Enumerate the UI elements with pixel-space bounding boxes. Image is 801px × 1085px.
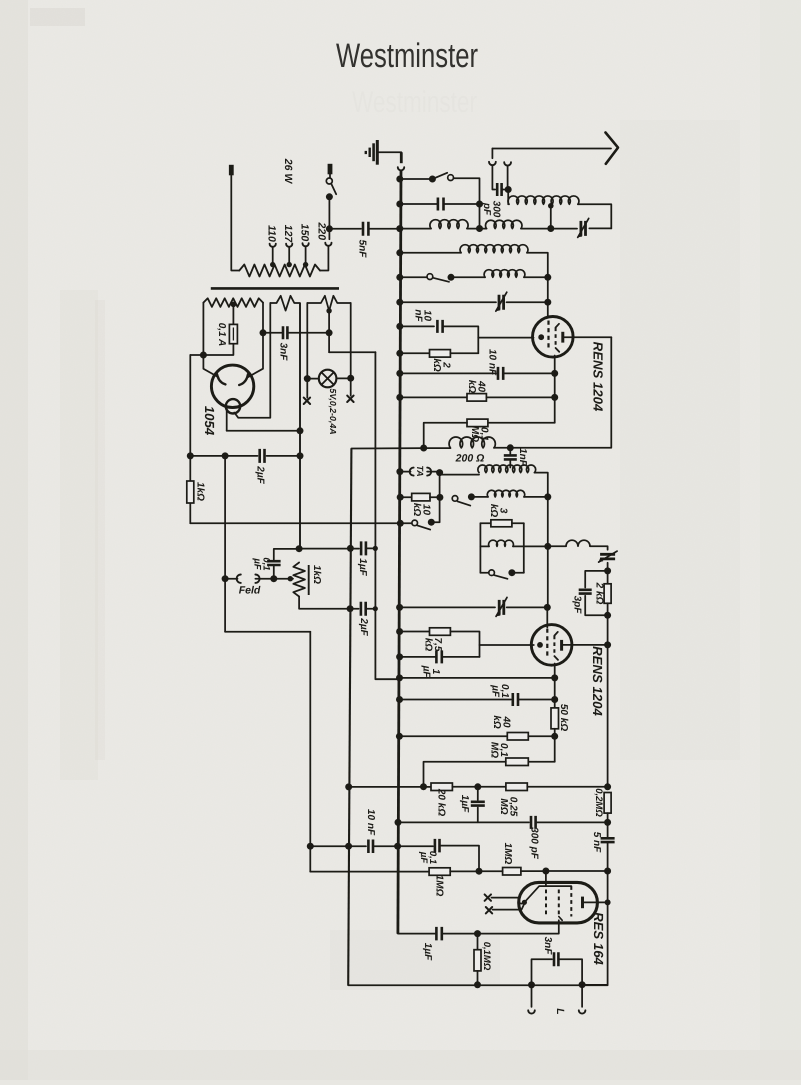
trimmer capacitor CT3 (600, 554, 615, 559)
wire C3 to grid corner (443, 326, 478, 353)
junction row4 bus (396, 249, 403, 256)
rheostat R17 1 kOhm (zigzag) (293, 563, 305, 597)
wire 1M row left (310, 871, 429, 873)
wire coil row right (548, 545, 566, 547)
wire S6 to 220 node (328, 197, 330, 229)
junction row2 dot on bus (396, 176, 403, 183)
junction B+ rail/20k (345, 783, 352, 790)
wire 10nF row (399, 325, 434, 327)
wire C11 to detector column (536, 821, 608, 823)
junction B+ rail/1uF row (347, 545, 354, 552)
resistor R8 40 kOhm (507, 733, 528, 741)
junction sc2/coil row (544, 543, 551, 550)
wire row3 left (399, 228, 431, 230)
capacitor 300 pF (497, 183, 501, 196)
junction V3 anode (605, 899, 611, 905)
tap 110 socket (270, 244, 276, 247)
svg-text:150: 150 (299, 224, 311, 242)
wire winding B left to nub (234, 303, 270, 418)
junction cathode bus (396, 674, 403, 681)
filament lead 1 with x (492, 897, 520, 899)
resistor R11 0.25 MOhm (506, 783, 527, 791)
svg-text:3pF: 3pF (571, 596, 582, 615)
tube V2 RENS 1204 envelope and electrodes (531, 625, 572, 666)
label 0,1 uF (C8) (490, 684, 511, 698)
trimmer capacitor CT2 (499, 295, 504, 310)
wire C21 to heater rail (366, 608, 376, 610)
wire filament row (227, 430, 300, 432)
wire R6 to grid corner (450, 632, 479, 657)
capacitor C12 10nF (368, 840, 373, 854)
fuse 0.1 A (229, 324, 237, 343)
wire TA to osc node (427, 471, 439, 473)
junction 1uF row end (373, 546, 378, 551)
svg-text:MΩ: MΩ (498, 798, 509, 814)
wire 2k branch (607, 571, 609, 584)
svg-text:5 nF: 5 nF (591, 832, 602, 853)
label 1 kOhm underline (308, 565, 310, 595)
label 0,1uF (C19) (251, 557, 271, 570)
junction S6 pivot (326, 193, 333, 200)
junction tap/row3 (547, 225, 554, 232)
resistor R1 2 kOhm (430, 350, 451, 358)
junction tube2 screen (544, 604, 551, 611)
junction L1 tap (548, 203, 554, 209)
wire L5 to anode column (494, 447, 611, 449)
svg-text:20 kΩ: 20 kΩ (435, 788, 446, 816)
wire CT2 to screen column (507, 301, 548, 303)
junction lamp row left (304, 375, 311, 382)
capacitor C14 1uF (output) (436, 927, 441, 941)
junction speaker left (528, 981, 535, 988)
wire C20 to heater rail (366, 547, 376, 549)
wire row5 left (399, 276, 427, 278)
grid dot inside tube2 (537, 642, 543, 648)
wire S2 to L4 (451, 276, 485, 278)
svg-text:3nF: 3nF (277, 343, 288, 362)
wire C13 to corner (440, 846, 480, 872)
wire R9 to 20k corner (424, 762, 506, 787)
svg-text:1µF: 1µF (357, 558, 368, 576)
junction 2k bus (396, 350, 403, 357)
junction lamp row right (347, 375, 354, 382)
junction 0.1uF bus (396, 696, 403, 703)
wire 10nF3 row left (310, 845, 366, 847)
svg-text:1MΩ: 1MΩ (502, 843, 513, 865)
junction S2 pivot (448, 274, 455, 281)
wire 40k2 row (399, 735, 507, 737)
junction 20k row riser (420, 783, 427, 790)
svg-text:L: L (554, 1008, 566, 1014)
wire C14 to bus corner (398, 933, 436, 935)
label 0,1 uF (C13) (418, 851, 438, 864)
node A1 junction (505, 186, 512, 193)
junction osc/10k row (436, 494, 443, 501)
wire grid lead tube1 (478, 337, 533, 339)
svg-text:kΩ: kΩ (466, 380, 477, 394)
junction Feld column/10nF3 (307, 843, 314, 850)
junction tap/3nF row (326, 329, 333, 336)
junction row5 bus (396, 274, 403, 281)
wire C7 to grid corner (442, 656, 480, 658)
wire output column to bottom (584, 902, 608, 985)
wire switch row (399, 522, 412, 524)
wire V0 drop (189, 355, 191, 523)
label 3 kOhm (L7) (488, 504, 508, 518)
svg-text:1nF: 1nF (517, 448, 528, 467)
svg-text:2 kΩ: 2 kΩ (593, 582, 604, 605)
capacitor C5 1nF (504, 455, 517, 459)
wire B+ rail (348, 449, 351, 986)
svg-text:Feld: Feld (239, 584, 261, 596)
junction S4 pivot (428, 519, 435, 526)
wire 300pF row left (398, 821, 529, 823)
junction osc node (436, 469, 443, 476)
wire C2 to vertical (444, 203, 480, 205)
wire R1 to grid corner (450, 352, 478, 354)
resistor R16 1 kOhm (vertical) (187, 481, 194, 503)
svg-text:µF: µF (421, 665, 432, 679)
svg-text:2µF: 2µF (254, 465, 265, 484)
resistor R14 1 MOhm (503, 868, 521, 876)
junction 40k2 row (551, 733, 558, 740)
inductor L6 (8 turns) (478, 465, 536, 473)
wire field column down (309, 632, 311, 872)
wire 7.5k row (399, 631, 430, 633)
field coil sockets (Feld) (237, 575, 241, 583)
wire C5 to L6 (509, 459, 511, 467)
wire node A1 to antenna coil (507, 190, 509, 205)
capacitor C2 (row2) (438, 198, 444, 211)
wire 0.1M row (488, 422, 555, 424)
svg-text:1MΩ: 1MΩ (433, 875, 444, 897)
switch S4 (412, 520, 418, 526)
wire osc node to L6 (440, 474, 479, 476)
label 2 kOhm (431, 358, 452, 372)
wire detector column upper (607, 615, 609, 787)
svg-text:0,2MΩ: 0,2MΩ (593, 788, 604, 817)
junction 40k2 bus (396, 733, 403, 740)
svg-text:µF: µF (490, 684, 501, 698)
wire row6 left (399, 301, 496, 303)
wire tap to fuse (232, 304, 234, 324)
resistor R6 7.5 kOhm (430, 628, 451, 636)
junction bottom row r15 (474, 981, 481, 988)
junction trimmer row bus (396, 604, 403, 611)
wire L9 to trimmer column (590, 546, 608, 550)
switch S3 (452, 496, 458, 502)
svg-text:110: 110 (266, 225, 278, 242)
primary winding zigzag (239, 265, 320, 277)
junction row3 bus (396, 225, 403, 232)
resistor R3 0.1 MOhm (467, 419, 488, 427)
wire V3 anode (583, 901, 608, 903)
label 40 kOhm (R2) (466, 380, 486, 394)
wire 1uF row (399, 656, 436, 658)
junction 40k bus (396, 394, 403, 401)
capacitor C15 3nF loop (532, 959, 553, 985)
wire 220 tap pin (328, 229, 330, 240)
svg-text:RENS 1204: RENS 1204 (591, 342, 606, 412)
junction cathode/40k (551, 394, 558, 401)
wire R13 to corner (450, 870, 479, 872)
inductor L7 3 kOhm (487, 490, 524, 497)
band filter coil row (480, 545, 489, 547)
wire 1nF riser (509, 448, 511, 454)
antenna socket 2 (504, 162, 511, 165)
resistor R9 0.1 MOhm (506, 758, 529, 766)
antenna with arrow (492, 148, 611, 150)
svg-text:1µF: 1µF (459, 795, 470, 813)
svg-text:TA: TA (415, 465, 425, 476)
junction 2uF row end (373, 606, 378, 611)
capacitor C20 1uF (361, 541, 366, 555)
wire socket 2 down to node A1 (507, 166, 509, 187)
capacitor C10 5nF (601, 838, 615, 842)
svg-text:10 nF: 10 nF (365, 809, 376, 836)
junction S3 pivot (468, 493, 475, 500)
wire R14 to grid node (521, 870, 546, 872)
tube V3 RES 164 envelope and electrodes (519, 882, 598, 923)
trimmer capacitor CT4 (499, 600, 504, 615)
resistor R5 2 kOhm (vertical) (604, 584, 611, 604)
inductor L3 (8 turns) (460, 245, 528, 253)
junction HV right/3nF row (260, 329, 267, 336)
wire R12 down (607, 813, 609, 838)
capacitor C4 10nF (498, 367, 503, 380)
wire cathode row (399, 677, 555, 679)
svg-text:kΩ: kΩ (491, 715, 502, 729)
svg-text:kΩ: kΩ (488, 504, 499, 518)
junction 300pF row det (604, 819, 611, 826)
junction HT top of rheostat (296, 545, 303, 552)
wire main ground bus (vertical) (400, 152, 403, 163)
wire V1 cathode down (554, 356, 556, 423)
junction 3pF bottom (604, 612, 611, 619)
junction det column 20k row (604, 783, 611, 790)
wire chassis row (190, 522, 400, 524)
inductor L4 (5 turns) (484, 270, 525, 278)
wire field row right (255, 578, 273, 580)
wire HV left end to anode (203, 303, 218, 378)
capacitor C9 1uF riser (477, 787, 479, 800)
speaker terminal drop L2 (581, 985, 583, 1007)
junction 10nF2 bus (396, 370, 403, 377)
grid dot inside tube1 (538, 334, 544, 340)
junction 300pF bus (395, 819, 402, 826)
junction AF node (604, 868, 611, 875)
wire C8 to cathode line (518, 699, 555, 701)
capacitor C11 300 pF (531, 816, 536, 829)
wire C18 to HT rail (267, 455, 301, 457)
wire L4 to screen column (524, 276, 548, 278)
svg-text:26 W: 26 W (282, 158, 294, 185)
junction B+ rail/2uF row (347, 605, 354, 612)
svg-text:0,1MΩ: 0,1MΩ (481, 942, 492, 971)
junction L5/1nF (507, 444, 514, 451)
wire 10nF2 row (399, 372, 496, 374)
wire S1 to corner (454, 178, 480, 228)
wire R2 to cathode (486, 396, 554, 398)
svg-text:kΩ: kΩ (431, 358, 442, 372)
svg-text:RENS 1204: RENS 1204 (590, 646, 605, 716)
wire winding C left drop (306, 303, 308, 379)
wire R11 to detector column (527, 786, 607, 788)
svg-text:10 nF: 10 nF (486, 349, 497, 376)
svg-text:5V,0,2-0,4A: 5V,0,2-0,4A (328, 388, 338, 434)
junction AVC/200ohm row (420, 445, 427, 452)
wire CT4 to tube2 top (507, 606, 548, 608)
wire 0.1uF row (399, 699, 511, 701)
HV secondary winding (203, 298, 263, 307)
svg-text:1kΩ: 1kΩ (194, 482, 205, 501)
wire row2 cap feed (399, 203, 438, 205)
trimmer capacitor CT1 (581, 221, 586, 236)
junction B+ rail/10nF3 (345, 843, 352, 850)
wire field loop bottom (225, 631, 310, 633)
wire L1 tap down (550, 206, 552, 229)
svg-text:200 Ω: 200 Ω (455, 452, 485, 464)
wire C12 to bus (373, 845, 398, 847)
wire field row (225, 578, 237, 580)
label 40 kOhm (R8) (491, 715, 512, 729)
band filter right side (523, 523, 525, 572)
wire R7 down (554, 729, 556, 762)
connector socket on bus top (398, 167, 404, 170)
junction row1 (429, 176, 436, 183)
band filter top with resistor (480, 522, 491, 524)
resistor R13 1 MOhm (429, 868, 450, 876)
svg-text:1kΩ: 1kΩ (311, 565, 322, 584)
wire grid lead tube2 (480, 644, 534, 646)
junction V2 anode (604, 641, 611, 648)
wire L8 to screen column 2 (513, 545, 548, 547)
wire C10 down to AF node (607, 842, 609, 871)
wire antenna socket 1 to 300pF (492, 165, 495, 189)
junction 0.1uF row (551, 696, 558, 703)
capacitor C8 0.1uF (513, 693, 518, 706)
label 0,25 MOhm (R11) (498, 797, 518, 817)
junction V0/2uF row (187, 452, 194, 459)
resistor R10 20 kOhm (431, 783, 452, 791)
junction V2uF/V2 column (222, 452, 229, 459)
wire CT3 down (607, 563, 609, 571)
wire 40k row (399, 396, 467, 398)
capacitor C13 0.1uF (435, 839, 440, 853)
wire R3 to AVC corner (424, 423, 467, 448)
wire HV right end to anode (248, 303, 263, 378)
wire 220 socket to primary end (320, 246, 328, 271)
junction HT/filament row (297, 427, 304, 434)
label 10 nF (C3) (412, 309, 432, 322)
svg-text:127: 127 (282, 225, 294, 244)
junction HV left/fuse row (200, 352, 207, 359)
label 10 kOhm (R4) (411, 503, 431, 517)
capacitor C7 1uF (436, 650, 441, 663)
wire bus to C13 (398, 845, 433, 847)
junction HT/2uF row (297, 452, 304, 459)
junction RES164 grid node (542, 868, 549, 875)
inductor L9 (2 turns) (566, 540, 590, 546)
svg-text:0,1 A: 0,1 A (216, 323, 227, 347)
lamp winding (C) (307, 296, 350, 311)
resistor R4 10 kOhm (412, 493, 430, 501)
junction screen column row6 (544, 299, 551, 306)
svg-text:Westminster: Westminster (352, 86, 477, 119)
resistor R2 40 kOhm (467, 394, 486, 402)
wire R4 to osc node (430, 496, 440, 498)
capacitor C3 10nF (437, 320, 442, 333)
wire osc node down (439, 473, 441, 522)
transformer core bar (211, 287, 339, 290)
wire S4 pivot to osc node (431, 521, 439, 523)
svg-text:220: 220 (315, 222, 327, 241)
band filter bottom with switch S5 (480, 572, 488, 574)
junction field row (222, 575, 229, 582)
switch S6 mains (326, 178, 332, 184)
wire pin1 to primary (231, 175, 239, 270)
wire right column (anode V1) (610, 337, 612, 447)
tap 127 socket (286, 244, 292, 247)
wire L3 to screen column (527, 253, 548, 317)
wire R8 to R7 foot (528, 735, 554, 737)
switch S1 wave-band (448, 175, 454, 181)
wire S3 to L7 (471, 496, 488, 498)
capacitor C21 2uF (361, 602, 366, 616)
wire V1 anode to right column (563, 336, 612, 338)
wire pin2 to switch (329, 174, 331, 178)
inductor L8 (filter) (489, 540, 514, 546)
wire 2uF1 row (190, 455, 257, 457)
capacitor C17 3nF (mains filter) (263, 332, 281, 334)
resistor R15 0.1 MOhm (vertical) (477, 934, 479, 950)
resistor R7 50 kOhm (vertical) (551, 708, 559, 729)
junction 1uF2 riser (474, 783, 481, 790)
capacitor C18 2uF (260, 449, 265, 463)
wire L6 right to screen column 2 (535, 473, 548, 608)
junction 7.5k bus (396, 628, 403, 635)
wire 300pF to node A1 (502, 189, 509, 191)
switch S2 (427, 274, 433, 280)
wire L2a-L2b (467, 228, 487, 230)
junction switch row bus (397, 520, 404, 527)
label 0,1 MOhm (R9) (489, 742, 510, 758)
junction CT3/2k-3pF (604, 567, 611, 574)
junction 1uF bus (396, 653, 403, 660)
wire winding C right drop (350, 303, 352, 378)
junction cathode row (551, 674, 558, 681)
wire 0.1M2 row (528, 761, 554, 763)
wire tube left lead (226, 407, 228, 431)
svg-text:2µF: 2µF (358, 617, 369, 636)
wire L1 to right column (578, 204, 611, 228)
junction 10k bus (397, 494, 404, 501)
wire output column AF node to anode (607, 871, 609, 902)
speaker terminal drop L1 (531, 985, 533, 1007)
mains plug pin 1 (229, 165, 234, 176)
wire 10k row (399, 496, 412, 498)
filament lead 2 with x (493, 904, 525, 910)
wire winding C tap (328, 311, 330, 352)
inductor L2a (430, 220, 468, 229)
junction grid row corner (476, 868, 483, 875)
wire trimmer row (399, 606, 495, 608)
band filter left side (479, 523, 481, 572)
wire tube2 screen lead (546, 607, 548, 627)
junction 10nF bus (396, 323, 403, 330)
junction row3/vertical (476, 225, 483, 232)
label 1 uF (C7) (421, 665, 441, 679)
